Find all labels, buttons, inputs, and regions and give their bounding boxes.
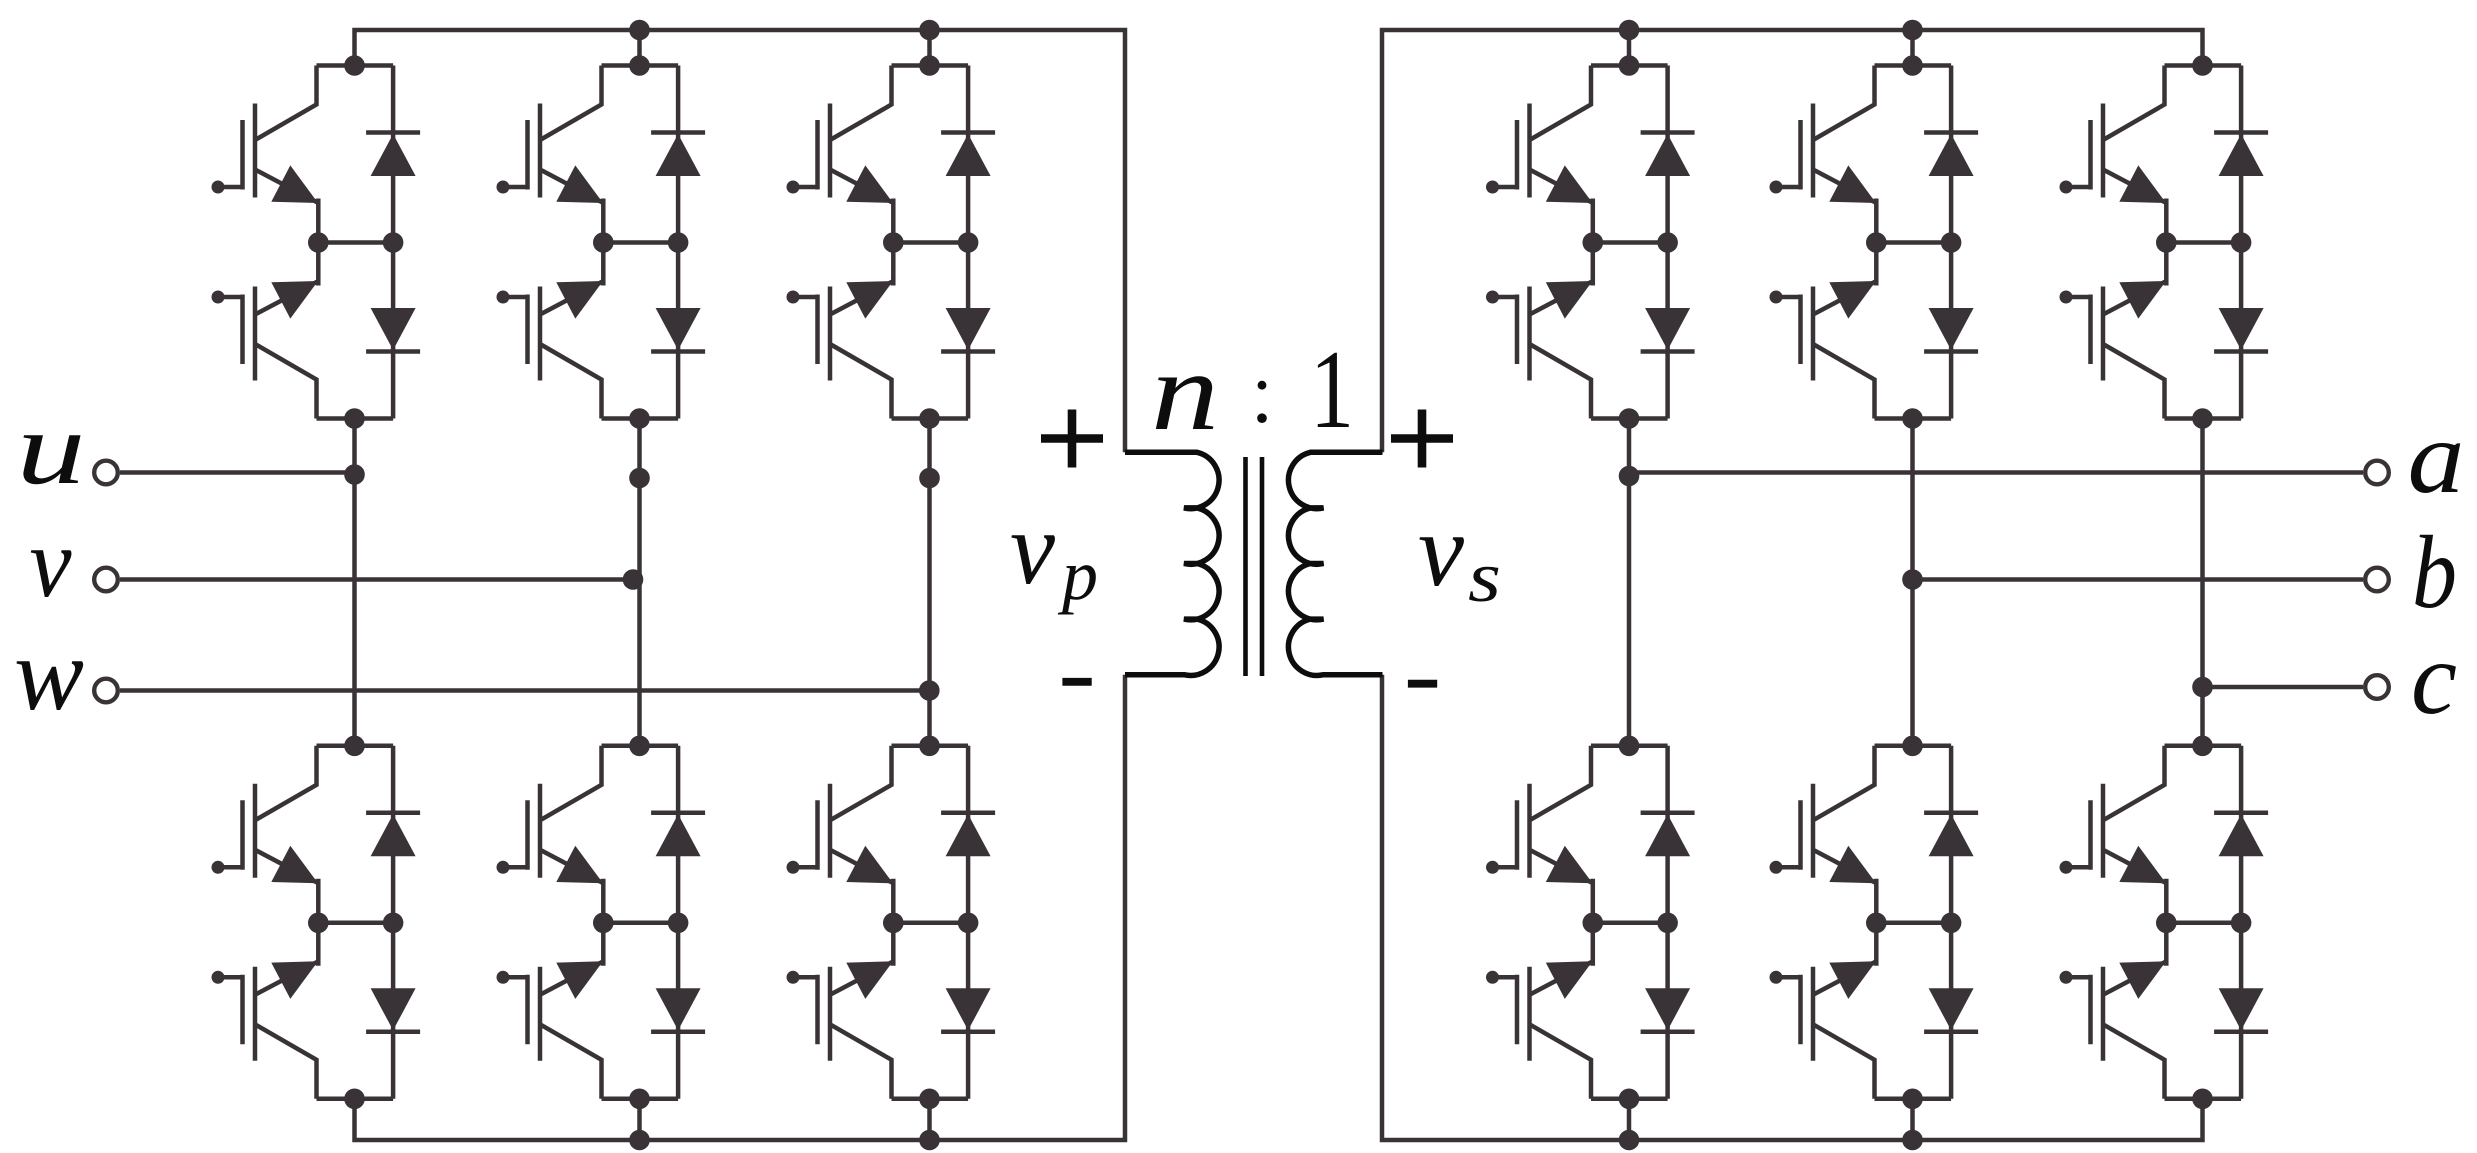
svg-text:s: s <box>1468 537 1501 617</box>
svg-text:v: v <box>30 507 73 618</box>
svg-text:n: n <box>1151 330 1219 454</box>
svg-text:1: 1 <box>1310 328 1354 452</box>
svg-text:u: u <box>17 391 86 506</box>
svg-text:w: w <box>14 617 84 732</box>
svg-text:a: a <box>2408 400 2465 515</box>
svg-text:v: v <box>1418 493 1465 608</box>
svg-text:v: v <box>1010 491 1056 606</box>
svg-text:b: b <box>2412 515 2457 630</box>
svg-text:c: c <box>2411 621 2457 736</box>
svg-text:p: p <box>1057 535 1098 615</box>
